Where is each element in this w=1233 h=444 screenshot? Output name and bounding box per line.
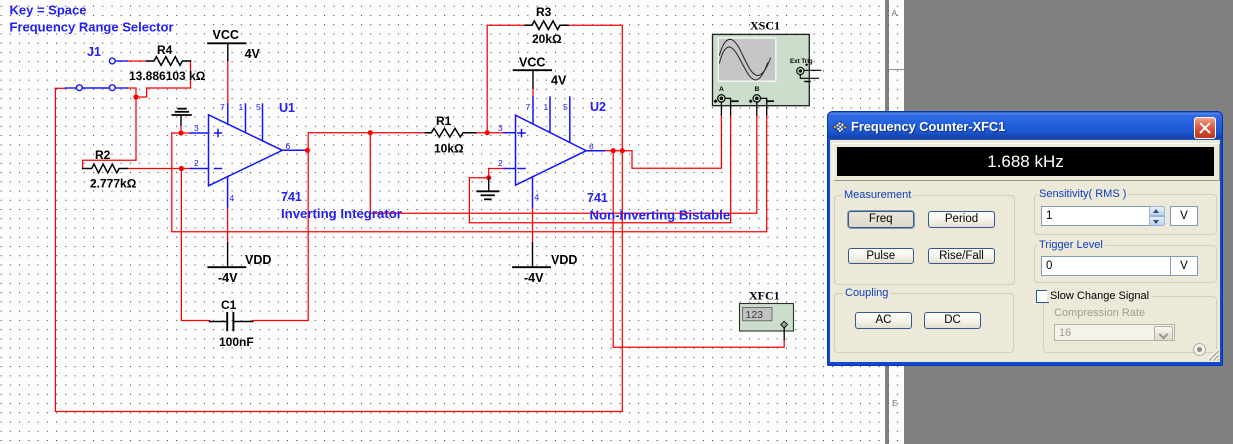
svg-text:R4: R4 xyxy=(157,43,173,57)
svg-text:4V: 4V xyxy=(245,47,261,61)
wire switch common down to junction xyxy=(83,88,136,169)
wire R3 left leg xyxy=(487,25,525,133)
oscilloscope XSC1 xyxy=(713,34,821,114)
wire R4 right down to switch row xyxy=(136,61,191,97)
wire R1 right to U2 plus input xyxy=(476,132,504,134)
svg-text:XFC1: XFC1 xyxy=(749,289,780,303)
svg-text:4: 4 xyxy=(535,192,540,202)
group Measurement xyxy=(834,195,1015,285)
svg-text:2: 2 xyxy=(194,158,199,168)
power VDD U1 xyxy=(208,243,245,267)
ground at U2 minus input xyxy=(477,178,498,199)
wire ground net to scope B minus xyxy=(172,115,767,232)
wire U1 output feedback up to R1 xyxy=(308,133,425,151)
svg-text:Inverting Integrator: Inverting Integrator xyxy=(281,206,402,221)
svg-text:1: 1 xyxy=(239,102,244,112)
svg-text:7: 7 xyxy=(526,102,531,112)
wire VCC stem U1 red xyxy=(227,61,229,105)
wire U2 minus input down to ground xyxy=(488,169,490,179)
svg-text:VDD: VDD xyxy=(551,253,577,267)
frequency counter XFC1 xyxy=(740,304,794,341)
svg-text:VCC: VCC xyxy=(519,56,545,70)
svg-text:R2: R2 xyxy=(95,148,111,162)
power VDD U2 xyxy=(513,243,550,267)
svg-text:13.886103 kΩ: 13.886103 kΩ xyxy=(129,69,206,83)
group Slow Change Signal xyxy=(1043,296,1217,354)
wire U1 output down to scope channel B plus xyxy=(370,115,757,214)
power VCC U1 xyxy=(208,43,246,60)
wire U2 output to scope A plus xyxy=(632,115,721,169)
resistor R2 xyxy=(83,164,128,173)
wire R3 right leg down to U2 output xyxy=(568,25,622,151)
wire switch row left red xyxy=(55,87,65,89)
svg-text:J1: J1 xyxy=(87,45,101,59)
resistor R4 xyxy=(147,57,191,66)
wire inverting node down to C1 left xyxy=(181,169,209,321)
terminal A xyxy=(718,95,725,102)
wire VDD stem U2 red xyxy=(532,207,534,243)
svg-text:3: 3 xyxy=(498,123,503,133)
wire J1 top to R4 (red part) xyxy=(127,60,147,62)
svg-text:1: 1 xyxy=(544,102,549,112)
node junction R1/R3 xyxy=(485,130,490,135)
node junction U2out/XFC1 xyxy=(611,148,616,153)
svg-text:20kΩ: 20kΩ xyxy=(532,32,562,46)
wire VDD stem U1 red xyxy=(227,207,229,243)
resize grip xyxy=(1206,348,1219,361)
svg-text:Non-Inverting Bistable: Non-Inverting Bistable xyxy=(590,208,731,223)
group Trigger Level xyxy=(1034,245,1218,283)
wire R2 right to U1 inverting input xyxy=(127,168,190,170)
wire ground stem red part U1 xyxy=(180,125,182,133)
terminal B xyxy=(753,95,760,102)
svg-text:B: B xyxy=(755,86,760,93)
svg-text:VCC: VCC xyxy=(213,28,239,42)
svg-text:5: 5 xyxy=(563,102,568,112)
svg-text:Key = Space: Key = Space xyxy=(10,3,87,18)
node junction R2/C1 xyxy=(179,166,184,171)
svg-text:Ext Trig: Ext Trig xyxy=(790,58,813,65)
svg-text:6: 6 xyxy=(589,142,594,152)
node junction U2 ground xyxy=(486,175,491,180)
svg-text:741: 741 xyxy=(587,191,608,205)
op-amp U1 xyxy=(190,104,304,207)
wire U1 plus input xyxy=(172,132,191,134)
svg-text:-4V: -4V xyxy=(218,271,238,285)
svg-text:C1: C1 xyxy=(221,298,237,312)
disabled combo 16 xyxy=(1054,324,1175,341)
svg-text:5: 5 xyxy=(256,102,261,112)
svg-text:A: A xyxy=(719,86,724,93)
node junction U1out/scope B xyxy=(368,130,373,135)
svg-text:-4V: -4V xyxy=(524,271,544,285)
switch J1 xyxy=(65,58,127,91)
power VCC U2 xyxy=(514,70,552,88)
svg-text:741: 741 xyxy=(281,190,302,204)
svg-text:100nF: 100nF xyxy=(219,335,254,349)
svg-text:10kΩ: 10kΩ xyxy=(434,142,464,156)
svg-text:R3: R3 xyxy=(536,5,552,19)
svg-text:2: 2 xyxy=(498,158,503,168)
capacitor C1 xyxy=(210,313,253,330)
resistor R1 xyxy=(425,128,476,137)
svg-text:R1: R1 xyxy=(436,114,452,128)
wire U1 output stub xyxy=(304,149,308,151)
svg-text:Frequency Range Selector: Frequency Range Selector xyxy=(10,20,174,35)
black frequency display xyxy=(833,143,1220,181)
svg-text:3: 3 xyxy=(194,123,199,133)
resistor R3 xyxy=(525,21,568,30)
title icon xyxy=(832,121,849,134)
svg-text:4: 4 xyxy=(230,193,235,203)
svg-text:VDD: VDD xyxy=(245,253,271,267)
spinner xyxy=(1149,206,1166,216)
node junction U2out/R3 xyxy=(620,148,625,153)
svg-text:6: 6 xyxy=(286,141,291,151)
svg-text:XSC1: XSC1 xyxy=(750,19,780,33)
svg-text:7: 7 xyxy=(220,102,225,112)
group Sensitivity xyxy=(1034,194,1218,235)
svg-text:U1: U1 xyxy=(279,101,295,115)
svg-text:4V: 4V xyxy=(551,74,567,88)
wire U2 output xyxy=(605,150,633,152)
wire U2 ground net to scope A minus xyxy=(469,115,730,223)
node junction U1 output xyxy=(305,148,310,153)
ground at U1 plus input xyxy=(172,109,191,125)
wire U2 output down to XFC1 (red) xyxy=(613,151,784,348)
svg-text:U2: U2 xyxy=(590,100,606,114)
terminal leads below box (black) xyxy=(720,102,722,115)
svg-text:2.777kΩ: 2.777kΩ xyxy=(90,177,137,191)
group Coupling xyxy=(834,293,1014,353)
wire C1 right up to U1 output xyxy=(253,150,308,320)
wire U2 minus red part xyxy=(489,168,504,170)
node junction J1/R4 xyxy=(133,94,138,99)
op-amp U2 xyxy=(504,97,605,207)
node junction U1 ground xyxy=(178,130,183,135)
wire VCC stem U2 red xyxy=(532,88,534,97)
wire U2 ground to left xyxy=(469,177,488,179)
radio indicator xyxy=(1193,343,1206,356)
wire U2 output feedback bottom loop to J1 xyxy=(55,88,622,411)
svg-text:123: 123 xyxy=(746,309,764,321)
